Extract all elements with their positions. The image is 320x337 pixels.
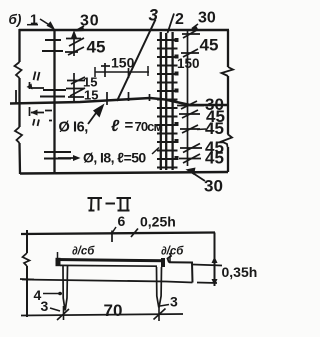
svg-text:0,35h: 0,35h — [222, 264, 258, 280]
svg-text:Ø, I8, ℓ=50: Ø, I8, ℓ=50 — [83, 150, 146, 166]
svg-text:45: 45 — [205, 149, 224, 168]
svg-text:2: 2 — [175, 11, 184, 28]
svg-text:15: 15 — [84, 88, 98, 103]
svg-text:Ø I6,: Ø I6, — [59, 120, 89, 136]
svg-text:45: 45 — [200, 36, 219, 55]
svg-text:0,25h: 0,25h — [140, 214, 176, 230]
svg-text:3: 3 — [41, 298, 49, 314]
svg-text:∂/сб: ∂/сб — [161, 246, 184, 258]
svg-text:30: 30 — [204, 177, 223, 196]
svg-text:=: = — [125, 117, 134, 134]
svg-text:3: 3 — [170, 294, 178, 310]
svg-text:3: 3 — [149, 6, 159, 25]
svg-text:150: 150 — [177, 56, 200, 71]
svg-text:ℓ: ℓ — [111, 118, 120, 135]
svg-text:45: 45 — [87, 38, 106, 57]
svg-text:б): б) — [9, 12, 22, 27]
svg-text:30: 30 — [80, 13, 99, 30]
svg-text:30: 30 — [198, 10, 216, 27]
svg-text:70: 70 — [104, 301, 123, 320]
svg-text:45: 45 — [205, 119, 224, 138]
svg-text:6: 6 — [118, 213, 126, 229]
svg-text:70см: 70см — [135, 119, 163, 134]
svg-text:150: 150 — [111, 55, 135, 71]
svg-text:∂/сб: ∂/сб — [72, 246, 95, 258]
